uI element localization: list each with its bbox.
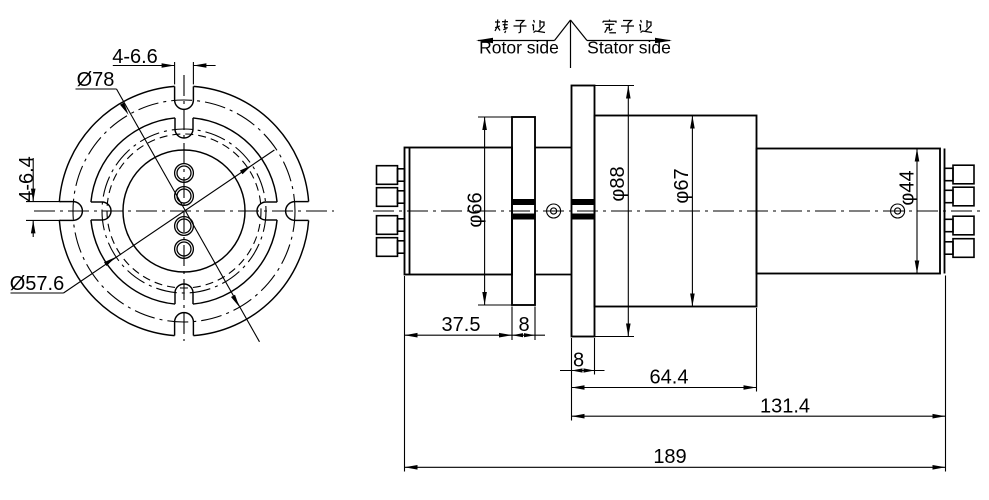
middle circle (interrupted by inner slots): [193, 220, 277, 304]
vertical centerline: [183, 75, 185, 341]
dimension dia 67: [671, 116, 695, 307]
rotor body: [405, 148, 513, 275]
svg-text:131.4: 131.4: [760, 396, 810, 418]
dimension 4-6.6 top slot: [112, 46, 215, 84]
dimension 64.4: [572, 367, 757, 390]
svg-text:Ø57.6: Ø57.6: [10, 273, 64, 295]
svg-text:Stator side: Stator side: [587, 38, 671, 58]
dimension 8 (disc 1): [512, 314, 545, 337]
stator body dia 67: [595, 116, 757, 307]
svg-text:4-6.6: 4-6.6: [112, 46, 158, 68]
inner bore circle: [123, 150, 245, 272]
bolt circle dia 78 dash-dot: [73, 100, 295, 322]
text dingzibian (stator side CJK): [603, 20, 652, 34]
flange disc dia 66: [512, 117, 535, 305]
outer mounting slot 6.6 (bottom): [175, 313, 194, 336]
diameter leader dia 57.6: [10, 150, 275, 295]
svg-text:8: 8: [518, 314, 529, 336]
hidden dashed circle: [107, 134, 261, 288]
horizontal centerline: [34, 210, 334, 212]
inner slot 6.4 (left): [91, 202, 111, 220]
side view: slip ring assembly: [373, 86, 985, 472]
diameter leader dia 78: [76, 69, 260, 342]
svg-text:φ67: φ67: [671, 168, 693, 203]
svg-text:8: 8: [573, 350, 584, 372]
dimension 131.4: [572, 396, 946, 419]
circle dia 57.6 dash-dot: [102, 129, 266, 293]
left connector pins: [377, 166, 398, 185]
svg-text:φ44: φ44: [897, 170, 919, 205]
dimension 4-6.4 left slot: [16, 156, 61, 237]
outer mounting slot 6.6 (top): [175, 86, 194, 109]
datum target symbol right: [891, 204, 905, 218]
dimension 8 (disc 2): [560, 350, 605, 373]
extension lines bottom: [404, 276, 406, 472]
svg-text:Rotor side: Rotor side: [479, 38, 559, 58]
shaft between discs: [535, 147, 572, 149]
rotor side arrow: [478, 40, 555, 42]
svg-text:189: 189: [653, 446, 686, 468]
dimension dia 88: [595, 86, 635, 337]
outer flange circle (interrupted by slots): [193, 220, 308, 335]
outer mounting slot 6.6 (right): [286, 202, 309, 221]
svg-text:φ88: φ88: [607, 166, 629, 201]
outer mounting slot 6.6 (left): [59, 202, 82, 221]
seal bands on disc 1: [512, 199, 535, 205]
svg-text:37.5: 37.5: [442, 314, 481, 336]
dimension 189: [405, 446, 946, 470]
dimension 37.5: [405, 314, 513, 338]
stator side arrow: [587, 40, 670, 42]
inner slot 6.4 (bottom): [175, 284, 193, 304]
side view centerline: [373, 210, 985, 212]
svg-text:64.4: 64.4: [650, 367, 689, 389]
rotor end cap line: [409, 148, 411, 275]
center terminal holes: [175, 164, 194, 183]
left view: flange front view: [10, 46, 334, 342]
right connector pins: [953, 165, 974, 184]
stator end cap line: [944, 149, 946, 274]
svg-text:Ø78: Ø78: [77, 69, 115, 91]
svg-text:4-6.4: 4-6.4: [16, 156, 38, 202]
rotor/stator side annotation: [476, 20, 672, 68]
text zhuanzibian (rotor side CJK): [495, 20, 545, 34]
inner slot 6.4 (right): [257, 202, 277, 220]
separator peak and vertical line: [570, 20, 572, 68]
datum target symbol left: [547, 204, 561, 218]
flange disc dia 88: [572, 86, 595, 337]
seal bands on disc 2: [572, 199, 595, 205]
inner slot 6.4 (top): [175, 118, 193, 138]
svg-text:φ66: φ66: [465, 192, 487, 227]
dimension dia 66: [465, 117, 513, 305]
dimension dia 44: [897, 149, 920, 274]
stator cylinder dia 44: [757, 149, 941, 274]
